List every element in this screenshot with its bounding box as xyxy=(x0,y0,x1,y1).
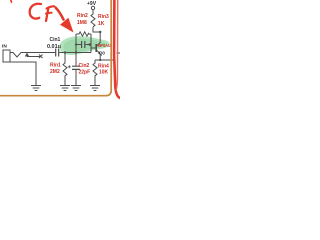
svg-text:1K: 1K xyxy=(98,21,105,27)
svg-text:+9V: +9V xyxy=(87,1,97,7)
svg-text:Cin1: Cin1 xyxy=(50,37,61,43)
svg-text:Cin2: Cin2 xyxy=(79,63,90,69)
svg-text:Rin3: Rin3 xyxy=(98,14,109,20)
svg-text:Rin2: Rin2 xyxy=(77,13,88,19)
svg-text:1M8: 1M8 xyxy=(77,20,87,26)
svg-text:Rin1: Rin1 xyxy=(50,63,61,69)
svg-text:2M2: 2M2 xyxy=(50,69,60,75)
svg-text:22pF: 22pF xyxy=(79,69,91,75)
svg-text:0.01u: 0.01u xyxy=(47,44,61,50)
svg-text:MPSA18: MPSA18 xyxy=(98,43,113,48)
svg-text:10K: 10K xyxy=(99,69,109,75)
svg-text:IN: IN xyxy=(2,44,7,50)
svg-text:Q0: Q0 xyxy=(99,50,105,55)
